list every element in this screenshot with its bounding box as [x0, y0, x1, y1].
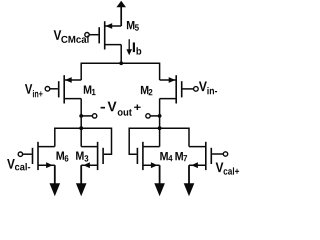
gate terminal circle Vcal+: [223, 152, 227, 156]
current arrow Ib: [126, 39, 132, 55]
gate terminal circle Vin-: [194, 87, 199, 92]
label M4: [160, 152, 168, 160]
label V_in-: [199, 81, 207, 91]
label M2 sub: [149, 89, 153, 95]
wire: right load rail: [129, 127, 189, 129]
label M4 sub: [168, 155, 172, 161]
label Ib: [133, 42, 135, 52]
label M7 sub: [183, 155, 187, 161]
label Vout plus sign: [134, 104, 141, 110]
gate terminal circle VCMcal: [85, 33, 89, 37]
transistor M3: [81, 142, 103, 170]
wire: right rail down to M4 gate: [129, 128, 136, 155]
ground arrow under M7: [184, 165, 195, 196]
transistor M4: [137, 142, 159, 170]
wire: rail to M1 source: [80, 63, 82, 80]
wire: VCMcal terminal to M5 gate: [89, 34, 98, 36]
wire: right rail down to M7 drain: [188, 128, 190, 147]
wire: left rail down to M6 drain: [54, 128, 56, 147]
wire: Vcal- terminal to M6 gate: [23, 153, 32, 155]
wire: M2 gate to Vin- terminal: [183, 88, 194, 90]
ground arrow under M6: [50, 165, 61, 196]
label V_CMcal: [54, 30, 62, 40]
ground arrow under M3: [76, 165, 87, 196]
label V_out sub: [118, 109, 132, 116]
label V_cal+ sub: [224, 167, 240, 174]
wire: M7 gate to Vcal+ terminal: [212, 153, 223, 155]
transistor M1: [59, 75, 81, 103]
label V_out: [108, 102, 117, 112]
wire: left rail down to M3 gate: [104, 128, 112, 155]
transistor M7: [189, 142, 211, 170]
label V_cal+: [216, 162, 224, 172]
gate terminal circle Vcal-: [18, 152, 22, 156]
label V_in+ sub: [33, 90, 43, 97]
wire: tail rail: [81, 62, 159, 64]
VDD supply arrow: [116, 1, 126, 26]
wire: right node down to M4 drain: [159, 128, 161, 146]
transistor M6: [33, 142, 55, 170]
label M7: [175, 152, 183, 160]
ground arrow under M4: [154, 165, 165, 196]
label M3: [76, 152, 84, 160]
label M6: [57, 152, 65, 160]
label M3 sub: [84, 155, 88, 161]
node Vout- tap: [79, 114, 97, 118]
gate terminal circle Vin+: [45, 87, 50, 92]
label M2: [141, 86, 149, 94]
label M1 sub: [92, 89, 96, 95]
node Vout+ tap: [146, 114, 162, 118]
wire: rail to M2 source: [159, 63, 161, 80]
label M6 sub: [65, 155, 69, 161]
wire: M1 drain down to left load node: [80, 99, 82, 129]
label V_in- sub: [207, 87, 217, 94]
label V_cal- sub: [15, 163, 30, 170]
wire: left load rail: [55, 127, 112, 129]
label V_CMcal sub: [61, 36, 88, 43]
transistor M5: [99, 21, 121, 49]
wire: M2 drain down to right load node: [159, 99, 161, 129]
label V_cal-: [7, 159, 15, 169]
transistor M2: [160, 75, 182, 103]
junction: left load node: [79, 126, 83, 130]
label Ib sub: [137, 47, 142, 54]
wire: Vin+ terminal to M1 gate: [50, 88, 58, 90]
label V_in+: [25, 84, 32, 94]
label Vout minus sign: [101, 107, 105, 109]
wire: M5 drain to tail node: [120, 45, 122, 64]
junction: tail node: [119, 61, 123, 65]
label M5 sub: [135, 24, 139, 30]
label M1: [84, 86, 92, 94]
wire: left node down to M3 drain: [80, 128, 82, 146]
label M5: [127, 21, 134, 29]
junction: right load node: [158, 126, 162, 130]
